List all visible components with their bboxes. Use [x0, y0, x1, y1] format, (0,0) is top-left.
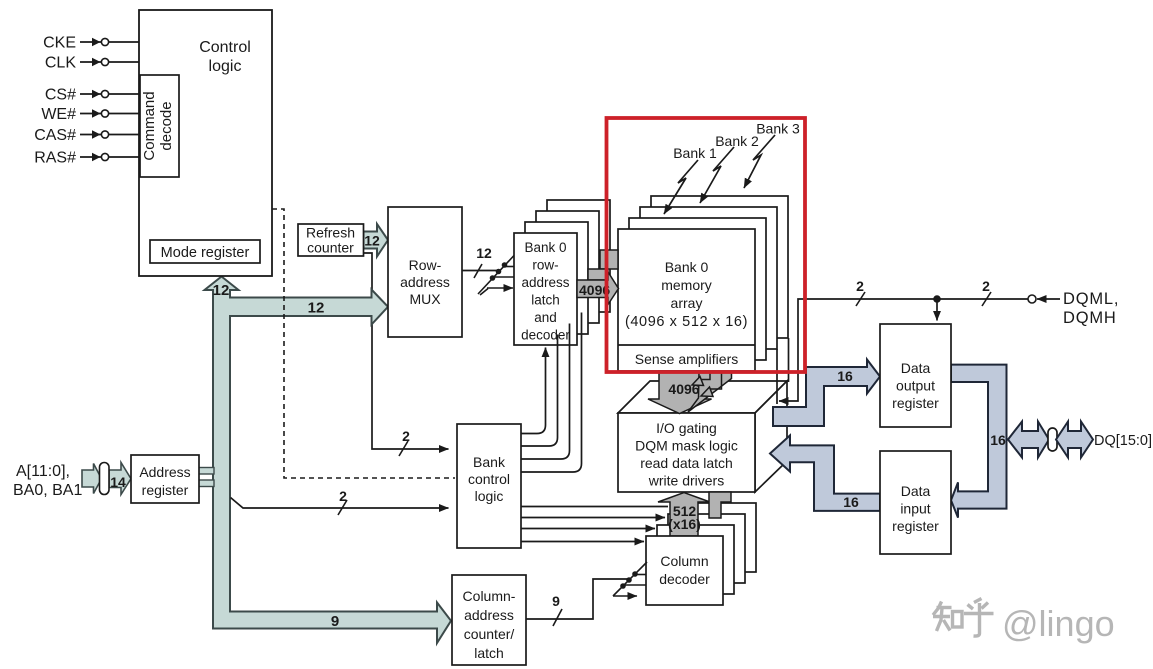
slash and 2 label (left) [856, 292, 865, 306]
gray bus sense amps to I/O gating (4096 down) [648, 371, 712, 414]
bank row-address latch stack (banks 3,2,1 behind) [547, 200, 610, 312]
svg-text:Sense amplifiers: Sense amplifiers [635, 351, 739, 367]
gray stepped bus stacked banks to I/O gating [688, 372, 732, 413]
dashed wire control logic to bank control logic [272, 209, 455, 478]
red highlight rectangle [607, 118, 806, 372]
bank 0 row-address latch and decoder box [514, 233, 577, 345]
svg-text:Bank 3: Bank 3 [756, 121, 800, 137]
svg-text:CKE: CKE [43, 35, 76, 52]
svg-text:(x16): (x16) [668, 516, 701, 532]
svg-text:counter/: counter/ [464, 626, 515, 642]
svg-text:(4096 x 512 x 16): (4096 x 512 x 16) [625, 314, 748, 330]
svg-text:12: 12 [213, 282, 230, 299]
row-address MUX box [388, 207, 462, 337]
wire MUX output 12 with fan to latch stack [462, 270, 500, 272]
input WE# [80, 113, 140, 115]
svg-text:CS#: CS# [45, 87, 76, 104]
svg-text:and: and [534, 310, 557, 325]
teal bus from refresh counter to row-address MUX [364, 224, 389, 257]
svg-text:Bank 0: Bank 0 [524, 240, 566, 255]
mode register box [150, 240, 260, 263]
svg-text:decoder: decoder [659, 571, 710, 587]
svg-text:Bank 1: Bank 1 [673, 145, 717, 161]
blue data bus data input register to I/O gating (16) [770, 435, 880, 511]
svg-text:input: input [900, 501, 930, 517]
wire refresh-counter to bank-control (2-bit, passes under teal bus) [364, 253, 449, 449]
input RAS# [80, 156, 140, 158]
fan diagonal with dots [478, 256, 514, 295]
svg-text:Data: Data [901, 483, 931, 499]
svg-text:12: 12 [364, 233, 380, 249]
svg-text:DQ[15:0]: DQ[15:0] [1094, 433, 1152, 449]
svg-text:16: 16 [843, 494, 859, 510]
svg-text:address: address [400, 274, 450, 290]
svg-text:logic: logic [209, 58, 242, 75]
fan diagonal with dots [613, 562, 647, 596]
slash and label 2 (lower) [338, 500, 347, 515]
svg-text:register: register [892, 518, 939, 534]
svg-text:MUX: MUX [409, 291, 441, 307]
wire address bus to bank control (2-bit) [231, 498, 449, 509]
blue data bus I/O gating to data output register (16) [773, 360, 880, 427]
svg-text:read data latch: read data latch [640, 455, 733, 471]
svg-text:4096: 4096 [668, 381, 699, 397]
svg-text:2: 2 [339, 488, 347, 504]
svg-text:Bank 2: Bank 2 [715, 133, 759, 149]
svg-text:DQMH: DQMH [1063, 309, 1117, 327]
svg-text:DQML,: DQML, [1063, 290, 1119, 308]
svg-text:12: 12 [476, 245, 492, 261]
input CS# [80, 93, 140, 95]
svg-text:WE#: WE# [41, 106, 76, 123]
svg-text:Address: Address [139, 464, 190, 480]
bank control logic box [457, 424, 521, 548]
I/O gating 3D box [618, 381, 787, 413]
junction dot [933, 295, 941, 303]
blue DQ bidirectional arrow (left half) [1008, 422, 1049, 458]
data input register box [880, 451, 951, 554]
gray bus latch to memory array (4096) [600, 250, 618, 269]
svg-text:RAS#: RAS# [34, 150, 76, 167]
pill on DQ bus [1048, 428, 1057, 451]
sense amplifiers strip [618, 344, 755, 346]
refresh counter box [298, 224, 364, 256]
blue DQ bidirectional arrow (right half) [1056, 422, 1093, 458]
svg-text:CLK: CLK [45, 55, 76, 72]
svg-text:address: address [464, 607, 514, 623]
svg-text:register: register [142, 482, 189, 498]
svg-text:Bank: Bank [473, 454, 506, 470]
svg-text:logic: logic [475, 488, 504, 504]
address register box [131, 455, 199, 503]
svg-text:latch: latch [531, 293, 560, 308]
svg-text:Data: Data [901, 360, 931, 376]
DQM wire to I/O gating [779, 299, 1028, 401]
column decoder stack [679, 503, 756, 572]
wires stacked banks down to I/O gating [776, 349, 778, 404]
svg-text:@lingo: @lingo [1002, 603, 1115, 644]
svg-text:DQM mask logic: DQM mask logic [635, 438, 738, 454]
fan branch wires [503, 266, 514, 268]
svg-text:9: 9 [552, 593, 560, 609]
svg-text:Row-: Row- [409, 257, 442, 273]
svg-text:counter: counter [307, 240, 354, 256]
gray bus column decoder to I/O gating (512 x16 up) [658, 493, 710, 537]
svg-text:write drivers: write drivers [648, 473, 724, 489]
svg-text:Command: Command [141, 91, 158, 160]
arrow down to data output register [936, 299, 938, 321]
svg-text:Column: Column [660, 553, 708, 569]
column-address counter/latch box [452, 575, 526, 665]
svg-text:I/O gating: I/O gating [656, 420, 717, 436]
bank 0 memory array box [618, 229, 755, 371]
svg-text:decode: decode [158, 101, 175, 150]
svg-text:latch: latch [474, 645, 504, 661]
blue data bus right vertical with arrow into data input register [951, 365, 1007, 518]
svg-text:Control: Control [199, 39, 251, 56]
svg-text:2: 2 [402, 428, 410, 444]
svg-text:array: array [671, 295, 703, 311]
svg-text:Refresh: Refresh [306, 225, 355, 241]
data output register box [880, 324, 951, 427]
slash and label 2 (upper) [399, 441, 408, 456]
memory bank stack (banks 3,2,1 behind) [651, 196, 788, 338]
svg-text:Mode register: Mode register [161, 245, 250, 261]
teal stubs address register to bus [198, 468, 214, 475]
svg-text:14: 14 [110, 474, 126, 490]
svg-text:output: output [896, 378, 935, 394]
wire DQML/DQMH input line [1037, 298, 1060, 300]
svg-text:Column-: Column- [463, 588, 516, 604]
svg-text:16: 16 [990, 432, 1006, 448]
gray stub to stacked column decoders [709, 492, 731, 518]
command decode box [140, 75, 179, 177]
svg-text:decoder: decoder [521, 328, 570, 343]
svg-text:A[11:0],: A[11:0], [16, 463, 70, 480]
svg-text:16: 16 [837, 368, 853, 384]
open circle on DQM line [1028, 295, 1036, 303]
wires bank control to latch stack (bank select, rounded corners) [521, 348, 546, 434]
svg-text:control: control [468, 471, 510, 487]
teal input arrow A[11:0] BA0 BA1 [82, 464, 102, 494]
teal address bus (vertical from address register, arrow up to mode register, branch to row-address MUX, bottom branch to column-address counter) [205, 277, 452, 644]
svg-text:2: 2 [982, 278, 990, 294]
svg-text:address: address [521, 275, 569, 290]
svg-text:register: register [892, 395, 939, 411]
svg-text:9: 9 [331, 613, 339, 630]
svg-text:CAS#: CAS# [34, 127, 76, 144]
svg-text:Bank 0: Bank 0 [665, 259, 709, 275]
control logic box [139, 10, 272, 276]
svg-text:2: 2 [856, 278, 864, 294]
svg-text:BA0, BA1: BA0, BA1 [13, 482, 82, 499]
input CLK [80, 61, 139, 63]
svg-text:memory: memory [661, 277, 712, 293]
slash and 2 label (right) [982, 292, 991, 306]
svg-text:row-: row- [532, 258, 558, 273]
input CKE [80, 41, 139, 43]
pill on input bus [100, 463, 110, 495]
wires bank control to column decoder stack [521, 506, 668, 508]
svg-text:12: 12 [308, 300, 325, 317]
input CAS# [80, 134, 140, 136]
wire column-address counter output 9 with fan [526, 579, 630, 619]
watermark 知乎 @lingo [933, 599, 994, 637]
column decoder box [646, 536, 723, 605]
